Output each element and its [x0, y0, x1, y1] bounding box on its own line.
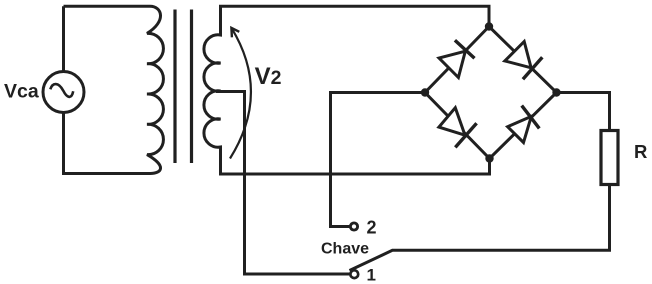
svg-text:Chave: Chave	[321, 241, 369, 258]
svg-text:2: 2	[367, 218, 377, 238]
svg-text:1: 1	[367, 266, 376, 284]
svg-text:Vca: Vca	[4, 81, 39, 103]
svg-text:V2: V2	[255, 63, 282, 90]
svg-text:R: R	[634, 141, 647, 162]
